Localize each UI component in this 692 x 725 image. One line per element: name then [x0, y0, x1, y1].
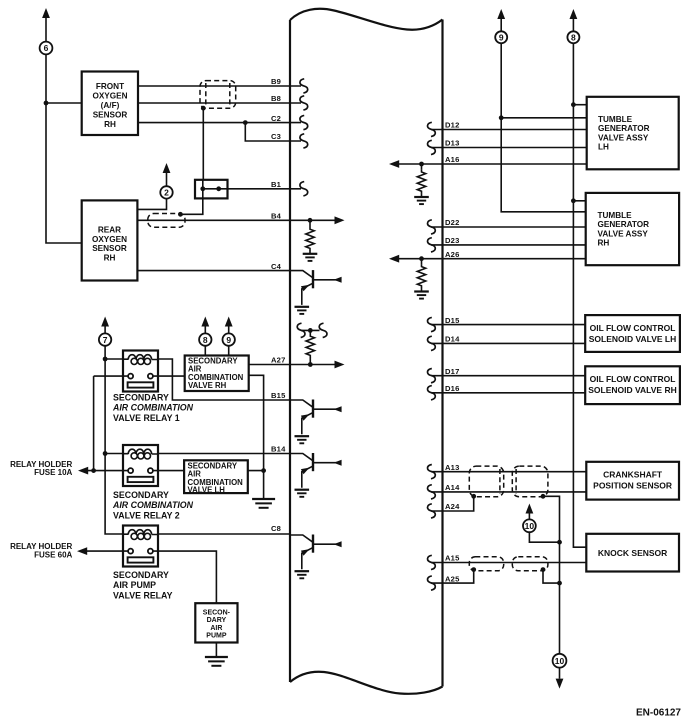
svg-text:VALVE RELAY 2: VALVE RELAY 2	[113, 510, 180, 520]
svg-text:A26: A26	[445, 250, 460, 259]
svg-text:B15: B15	[271, 391, 286, 400]
svg-text:C8: C8	[271, 524, 281, 533]
svg-text:FRONT: FRONT	[96, 82, 124, 91]
svg-text:SECONDARY: SECONDARY	[113, 490, 169, 500]
svg-text:10: 10	[525, 521, 535, 531]
svg-text:FUSE 10A: FUSE 10A	[34, 468, 72, 477]
svg-text:D14: D14	[445, 335, 460, 344]
svg-text:7: 7	[103, 335, 108, 345]
svg-text:PUMP: PUMP	[206, 633, 227, 640]
svg-text:DARY: DARY	[207, 617, 227, 624]
svg-text:SENSOR: SENSOR	[93, 111, 128, 120]
svg-text:9: 9	[499, 33, 504, 43]
svg-text:B4: B4	[271, 212, 282, 221]
svg-text:POSITION SENSOR: POSITION SENSOR	[593, 481, 672, 491]
svg-text:GENERATOR: GENERATOR	[598, 220, 650, 229]
svg-text:C2: C2	[271, 114, 281, 123]
svg-text:B1: B1	[271, 180, 282, 189]
svg-text:D12: D12	[445, 121, 460, 130]
svg-text:A25: A25	[445, 574, 460, 583]
svg-text:A15: A15	[445, 554, 460, 563]
svg-text:8: 8	[203, 335, 208, 345]
svg-text:RH: RH	[104, 120, 116, 129]
svg-text:SECONDARY: SECONDARY	[113, 393, 169, 403]
svg-text:CRANKSHAFT: CRANKSHAFT	[603, 470, 663, 480]
svg-text:D23: D23	[445, 236, 460, 245]
svg-text:C4: C4	[271, 262, 282, 271]
svg-text:D15: D15	[445, 316, 460, 325]
svg-text:10: 10	[555, 656, 565, 666]
svg-text:AIR COMBINATION: AIR COMBINATION	[112, 500, 194, 510]
svg-text:D13: D13	[445, 139, 460, 148]
svg-text:A13: A13	[445, 463, 460, 472]
svg-text:TUMBLE: TUMBLE	[598, 211, 633, 220]
svg-text:A14: A14	[445, 483, 460, 492]
svg-text:GENERATOR: GENERATOR	[598, 124, 650, 133]
svg-text:LH: LH	[598, 143, 609, 152]
svg-text:SOLENOID VALVE LH: SOLENOID VALVE LH	[589, 334, 677, 344]
svg-text:EN-06127: EN-06127	[636, 707, 681, 718]
svg-text:AIR: AIR	[210, 625, 222, 632]
svg-text:RH: RH	[104, 254, 116, 263]
svg-text:SECON-: SECON-	[203, 609, 231, 616]
svg-text:AIR COMBINATION: AIR COMBINATION	[112, 403, 194, 413]
svg-text:B8: B8	[271, 94, 281, 103]
svg-text:VALVE ASSY: VALVE ASSY	[598, 229, 649, 238]
svg-text:C3: C3	[271, 132, 281, 141]
svg-text:FUSE 60A: FUSE 60A	[34, 551, 72, 560]
svg-text:A24: A24	[445, 502, 460, 511]
svg-text:9: 9	[226, 335, 231, 345]
svg-text:SECONDARY: SECONDARY	[113, 570, 169, 580]
svg-text:B9: B9	[271, 77, 281, 86]
svg-text:OXYGEN: OXYGEN	[92, 235, 127, 244]
svg-text:SOLENOID VALVE RH: SOLENOID VALVE RH	[588, 385, 676, 395]
svg-text:REAR: REAR	[98, 225, 121, 234]
svg-text:A16: A16	[445, 155, 460, 164]
svg-text:VALVE RELAY 1: VALVE RELAY 1	[113, 413, 180, 423]
svg-text:8: 8	[571, 33, 576, 43]
svg-text:KNOCK SENSOR: KNOCK SENSOR	[598, 548, 667, 558]
svg-text:D22: D22	[445, 218, 460, 227]
svg-text:VALVE ASSY: VALVE ASSY	[598, 133, 649, 142]
svg-text:OXYGEN: OXYGEN	[92, 92, 127, 101]
svg-text:B14: B14	[271, 445, 286, 454]
svg-text:AIR PUMP: AIR PUMP	[113, 580, 156, 590]
svg-text:A27: A27	[271, 356, 286, 365]
svg-text:2: 2	[164, 188, 169, 198]
svg-text:SENSOR: SENSOR	[92, 244, 127, 253]
svg-text:D17: D17	[445, 367, 460, 376]
svg-text:VALVE RELAY: VALVE RELAY	[113, 590, 173, 600]
svg-text:OIL FLOW CONTROL: OIL FLOW CONTROL	[590, 323, 676, 333]
svg-text:VALVE LH: VALVE LH	[188, 485, 226, 494]
svg-text:VALVE RH: VALVE RH	[188, 381, 227, 390]
svg-text:RH: RH	[598, 239, 610, 248]
svg-text:OIL FLOW CONTROL: OIL FLOW CONTROL	[590, 374, 676, 384]
svg-text:(A/F): (A/F)	[101, 101, 120, 110]
svg-text:D16: D16	[445, 384, 460, 393]
svg-text:6: 6	[44, 43, 49, 53]
svg-text:TUMBLE: TUMBLE	[598, 115, 633, 124]
